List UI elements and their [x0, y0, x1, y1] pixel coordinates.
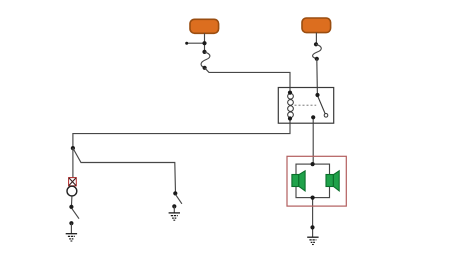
squiggle wire left: [201, 52, 210, 68]
terminal dot left end: [185, 42, 188, 45]
wire F1 to squiggle: [204, 33, 206, 52]
node squiggle top right: [314, 42, 318, 46]
horn H1: [292, 171, 305, 191]
wire squiggle to relay coil top: [205, 68, 290, 93]
node left junction A: [71, 146, 75, 150]
wire junction to switch S2: [73, 148, 176, 193]
wire relay common to horns: [312, 117, 314, 164]
ground G1: [66, 234, 77, 241]
ground G3: [307, 237, 318, 244]
horn H2: [326, 171, 339, 191]
squiggle wire right: [313, 44, 322, 59]
node horn bottom: [311, 196, 315, 200]
wire relay coil bottom to left junction: [73, 119, 290, 149]
switch S1: [69, 205, 79, 226]
wire F2 down: [315, 33, 317, 45]
wire branch left from node under F1: [187, 42, 205, 44]
node horn top: [311, 162, 315, 166]
wire horn parallel loop: [296, 164, 330, 198]
ground G2: [169, 213, 180, 220]
node squiggle bottom left: [203, 66, 207, 70]
wire S2 to ground: [173, 206, 175, 212]
wire horns to ground: [312, 198, 314, 237]
relay K1: [278, 88, 333, 124]
horn enclosure box: [287, 156, 346, 206]
node squiggle top left: [202, 50, 206, 54]
wire S1 to ground: [70, 223, 72, 233]
node under horn box: [310, 225, 314, 229]
wire squiggle to relay switch top: [316, 59, 319, 95]
wire junction to lamp: [72, 148, 74, 178]
lamp L1: [67, 178, 77, 196]
node squiggle bottom right: [315, 57, 319, 61]
node under F1: [202, 41, 206, 45]
fuse F1: [190, 19, 219, 33]
switch S2: [172, 191, 182, 208]
fuse F2: [302, 18, 331, 33]
wire lamp to switch S1: [70, 197, 73, 207]
